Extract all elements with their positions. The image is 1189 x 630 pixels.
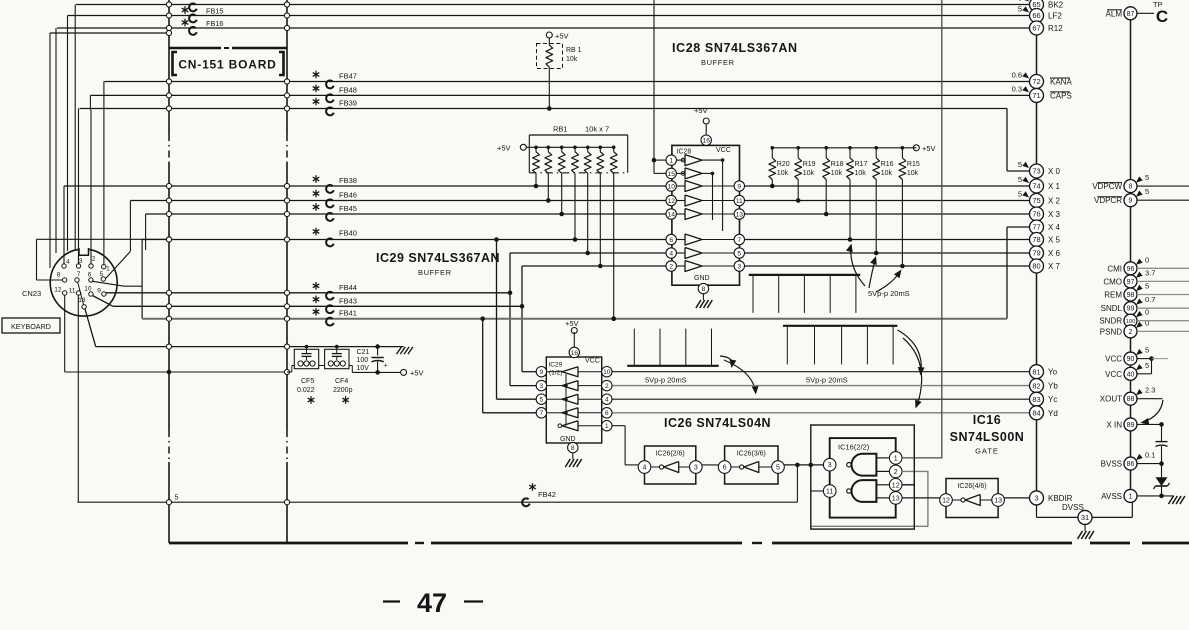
svg-text:2: 2: [894, 469, 898, 476]
svg-text:14: 14: [667, 211, 675, 218]
svg-text:FB40: FB40: [339, 229, 357, 238]
svg-text:1: 1: [106, 265, 110, 272]
svg-text:83: 83: [1032, 395, 1040, 404]
svg-text:3.7: 3.7: [1145, 268, 1155, 277]
svg-text:PSND: PSND: [1100, 327, 1122, 336]
svg-text:4: 4: [66, 258, 70, 265]
svg-text:Yc: Yc: [1048, 395, 1057, 404]
svg-text:2: 2: [605, 383, 609, 390]
svg-text:10V: 10V: [357, 365, 370, 372]
svg-text:KBDIR: KBDIR: [1048, 494, 1073, 503]
svg-text:X IN: X IN: [1106, 420, 1122, 429]
svg-text:1: 1: [605, 423, 609, 430]
svg-text:FB16: FB16: [206, 19, 223, 28]
svg-text:89: 89: [1127, 422, 1135, 429]
svg-text:12: 12: [667, 198, 675, 205]
svg-text:BVSS: BVSS: [1101, 460, 1122, 469]
svg-text:12: 12: [942, 498, 950, 505]
svg-text:10: 10: [667, 183, 675, 190]
svg-text:FB45: FB45: [339, 204, 357, 213]
svg-text:ALM: ALM: [1106, 9, 1123, 18]
svg-text:IC28: IC28: [677, 149, 692, 156]
svg-text:71: 71: [1032, 91, 1040, 100]
svg-text:13: 13: [78, 297, 86, 304]
svg-text:73: 73: [1032, 167, 1040, 176]
svg-text:0.3: 0.3: [1012, 84, 1022, 93]
svg-text:5: 5: [1145, 361, 1149, 370]
svg-text:IC16(2/2): IC16(2/2): [838, 443, 870, 452]
svg-text:R16: R16: [881, 161, 894, 168]
svg-text:0.1: 0.1: [1145, 451, 1155, 460]
svg-text:7: 7: [540, 410, 544, 417]
svg-text:FB15: FB15: [206, 7, 223, 16]
svg-text:FB41: FB41: [339, 309, 357, 318]
svg-text:IC16: IC16: [973, 413, 1001, 427]
svg-text:98: 98: [1127, 292, 1135, 299]
svg-text:6: 6: [605, 410, 609, 417]
svg-text:CF4: CF4: [335, 378, 348, 385]
svg-text:BUFFER: BUFFER: [418, 268, 452, 277]
svg-text:R15: R15: [907, 161, 920, 168]
svg-text:KANA: KANA: [1050, 78, 1072, 87]
svg-text:82: 82: [1032, 381, 1040, 390]
svg-text:R12: R12: [1048, 24, 1063, 33]
svg-text:7: 7: [77, 271, 81, 278]
svg-text:5: 5: [1145, 187, 1149, 196]
svg-text:5: 5: [1018, 175, 1022, 184]
svg-text:+5V: +5V: [922, 144, 936, 153]
svg-text:76: 76: [1032, 210, 1040, 219]
svg-text:CN-151 BOARD: CN-151 BOARD: [178, 58, 276, 72]
svg-text:3: 3: [1034, 494, 1038, 503]
svg-text:3: 3: [79, 258, 83, 265]
svg-text:VCC: VCC: [1105, 370, 1122, 379]
svg-text:9: 9: [1129, 198, 1133, 205]
svg-text:8: 8: [702, 286, 706, 293]
svg-text:5: 5: [1145, 346, 1149, 355]
svg-text:5: 5: [1145, 173, 1149, 182]
svg-text:10k: 10k: [566, 56, 578, 63]
svg-text:XOUT: XOUT: [1100, 395, 1122, 404]
svg-text:67: 67: [1032, 24, 1040, 33]
svg-text:Yd: Yd: [1048, 409, 1058, 418]
svg-text:80: 80: [1032, 262, 1040, 271]
svg-text:8: 8: [57, 272, 61, 279]
svg-text:Yo: Yo: [1048, 368, 1058, 377]
svg-text:5: 5: [776, 465, 780, 472]
svg-text:BUFFER: BUFFER: [701, 58, 735, 67]
svg-text:CAPS: CAPS: [1050, 91, 1072, 100]
svg-text:+: +: [384, 363, 388, 370]
svg-text:CMO: CMO: [1103, 277, 1122, 286]
svg-text:X 5: X 5: [1048, 236, 1061, 245]
svg-text:VCC: VCC: [585, 358, 600, 365]
svg-text:2: 2: [669, 263, 673, 270]
svg-text:3: 3: [737, 263, 741, 270]
svg-text:(1/2): (1/2): [549, 370, 562, 377]
svg-text:IC28 SN74LS367AN: IC28 SN74LS367AN: [672, 41, 798, 55]
svg-text:5Vp-p 20mS: 5Vp-p 20mS: [868, 289, 910, 298]
svg-text:4: 4: [605, 397, 609, 404]
svg-text:IC29: IC29: [549, 362, 563, 369]
svg-text:RB 1: RB 1: [566, 47, 582, 54]
svg-text:6: 6: [723, 465, 727, 472]
svg-text:11: 11: [69, 288, 76, 295]
svg-text:10k: 10k: [831, 170, 843, 177]
svg-text:2.3: 2.3: [1145, 386, 1155, 395]
svg-text:FB42: FB42: [538, 490, 556, 499]
svg-text:9: 9: [540, 369, 544, 376]
svg-text:R20: R20: [777, 161, 790, 168]
svg-text:5: 5: [1018, 160, 1022, 169]
svg-text:GND: GND: [694, 275, 710, 282]
svg-text:10: 10: [84, 285, 92, 292]
svg-text:13: 13: [892, 495, 900, 502]
svg-text:10: 10: [603, 369, 611, 376]
svg-text:100: 100: [1126, 319, 1136, 325]
svg-text:CN23: CN23: [22, 289, 41, 298]
svg-text:VDPCW: VDPCW: [1092, 182, 1122, 191]
svg-text:X 1: X 1: [1048, 182, 1061, 191]
svg-text:6: 6: [88, 271, 92, 278]
svg-text:2: 2: [1129, 329, 1133, 336]
svg-text:74: 74: [1032, 182, 1040, 191]
svg-text:2: 2: [92, 255, 96, 262]
svg-text:5: 5: [1018, 5, 1022, 14]
svg-text:10k x 7: 10k x 7: [585, 125, 609, 134]
svg-text:0.7: 0.7: [1145, 295, 1155, 304]
svg-text:8: 8: [571, 445, 575, 452]
svg-text:13: 13: [736, 211, 744, 218]
svg-text:3: 3: [540, 383, 544, 390]
svg-text:47: 47: [417, 588, 447, 618]
svg-text:RB1: RB1: [553, 125, 568, 134]
svg-text:C: C: [1156, 7, 1168, 26]
svg-text:86: 86: [1127, 461, 1135, 468]
svg-text:VCC: VCC: [1105, 355, 1122, 364]
svg-text:SN74LS00N: SN74LS00N: [950, 430, 1025, 444]
svg-text:GATE: GATE: [975, 447, 999, 456]
svg-text:4: 4: [643, 465, 647, 472]
svg-text:16: 16: [702, 138, 710, 145]
svg-text:88: 88: [1127, 396, 1135, 403]
svg-text:2200p: 2200p: [333, 387, 353, 394]
svg-text:99: 99: [1127, 306, 1135, 313]
svg-text:5: 5: [1018, 0, 1022, 3]
svg-text:75: 75: [1032, 196, 1040, 205]
svg-text:CMI: CMI: [1107, 264, 1122, 273]
svg-text:0: 0: [1145, 308, 1149, 317]
svg-text:31: 31: [1081, 513, 1089, 522]
svg-text:5: 5: [1018, 190, 1022, 199]
svg-text:9: 9: [97, 287, 101, 294]
svg-text:3: 3: [694, 465, 698, 472]
svg-text:R19: R19: [803, 161, 816, 168]
svg-text:84: 84: [1032, 409, 1040, 418]
svg-text:96: 96: [1127, 266, 1135, 273]
svg-text:90: 90: [1127, 356, 1135, 363]
svg-text:5: 5: [175, 495, 179, 502]
svg-text:CF5: CF5: [301, 378, 314, 385]
svg-text:C21: C21: [357, 349, 370, 356]
svg-text:X 2: X 2: [1048, 197, 1061, 206]
svg-text:+5V: +5V: [565, 319, 579, 328]
svg-text:BK2: BK2: [1048, 1, 1064, 10]
svg-text:13: 13: [994, 498, 1002, 505]
svg-text:78: 78: [1032, 235, 1040, 244]
svg-text:1: 1: [669, 158, 673, 165]
svg-text:DVSS: DVSS: [1062, 503, 1084, 512]
svg-text:5Vp-p 20mS: 5Vp-p 20mS: [645, 376, 687, 385]
svg-text:10k: 10k: [907, 170, 919, 177]
svg-text:R18: R18: [831, 161, 844, 168]
svg-text:16: 16: [571, 350, 579, 357]
svg-text:VCC: VCC: [716, 147, 731, 154]
svg-text:77: 77: [1032, 223, 1040, 232]
svg-text:IC26(3/6): IC26(3/6): [737, 451, 766, 458]
svg-text:8: 8: [1129, 184, 1133, 191]
svg-text:X 6: X 6: [1048, 249, 1061, 258]
svg-text:10k: 10k: [777, 170, 789, 177]
svg-text:VDPCR: VDPCR: [1094, 196, 1122, 205]
svg-text:1: 1: [894, 455, 898, 462]
svg-text:IC26(4/6): IC26(4/6): [957, 483, 986, 490]
svg-text:FB47: FB47: [339, 72, 357, 81]
svg-text:0: 0: [1145, 255, 1149, 264]
svg-text:+5V: +5V: [694, 106, 708, 115]
svg-text:7: 7: [737, 237, 741, 244]
svg-text:AVSS: AVSS: [1101, 492, 1122, 501]
svg-text:FB43: FB43: [339, 296, 357, 305]
svg-text:9: 9: [737, 183, 741, 190]
svg-text:LF2: LF2: [1048, 12, 1062, 21]
svg-text:IC26 SN74LS04N: IC26 SN74LS04N: [664, 416, 771, 430]
svg-text:FB46: FB46: [339, 191, 357, 200]
svg-text:FB39: FB39: [339, 99, 357, 108]
svg-text:10k: 10k: [803, 170, 815, 177]
svg-text:KEYBOARD: KEYBOARD: [11, 322, 51, 331]
svg-text:IC26(2/6): IC26(2/6): [656, 451, 685, 458]
svg-text:10k: 10k: [881, 170, 893, 177]
svg-text:0: 0: [1145, 318, 1149, 327]
svg-text:12: 12: [892, 482, 900, 489]
svg-text:R17: R17: [855, 161, 868, 168]
svg-text:11: 11: [736, 198, 743, 205]
svg-text:5: 5: [737, 250, 741, 257]
svg-text:3: 3: [828, 462, 832, 469]
svg-text:97: 97: [1127, 279, 1135, 286]
svg-text:5: 5: [100, 271, 104, 278]
svg-text:6: 6: [669, 237, 673, 244]
svg-text:4: 4: [669, 250, 673, 257]
svg-text:FB38: FB38: [339, 176, 357, 185]
svg-text:Yb: Yb: [1048, 382, 1058, 391]
svg-text:40: 40: [1127, 371, 1135, 378]
svg-text:SNDL: SNDL: [1101, 304, 1123, 313]
svg-text:100: 100: [357, 357, 369, 364]
svg-text:66: 66: [1032, 11, 1040, 20]
svg-text:81: 81: [1032, 367, 1040, 376]
svg-text:5: 5: [540, 397, 544, 404]
svg-text:5: 5: [1145, 282, 1149, 291]
svg-text:+5V: +5V: [555, 32, 569, 41]
svg-text:+5V: +5V: [410, 369, 424, 378]
svg-text:X 7: X 7: [1048, 262, 1061, 271]
svg-text:X 4: X 4: [1048, 223, 1061, 232]
svg-text:12: 12: [54, 286, 62, 293]
svg-text:X 0: X 0: [1048, 167, 1061, 176]
svg-text:1: 1: [1129, 493, 1133, 500]
svg-text:87: 87: [1127, 11, 1135, 18]
svg-text:11: 11: [826, 489, 833, 496]
svg-text:5Vp-p 20mS: 5Vp-p 20mS: [806, 376, 848, 385]
svg-text:15: 15: [667, 171, 675, 178]
svg-text:79: 79: [1032, 249, 1040, 258]
svg-text:SNDR: SNDR: [1099, 317, 1122, 326]
svg-text:0.6: 0.6: [1012, 71, 1022, 80]
svg-text:10k: 10k: [855, 170, 867, 177]
svg-text:FB44: FB44: [339, 283, 357, 292]
svg-text:+5V: +5V: [497, 144, 511, 153]
svg-text:FB48: FB48: [339, 85, 357, 94]
svg-text:X 3: X 3: [1048, 210, 1061, 219]
svg-text:IC29 SN74LS367AN: IC29 SN74LS367AN: [376, 251, 500, 265]
svg-text:72: 72: [1032, 77, 1040, 86]
svg-text:REM: REM: [1104, 291, 1122, 300]
svg-text:0.022: 0.022: [297, 387, 315, 394]
